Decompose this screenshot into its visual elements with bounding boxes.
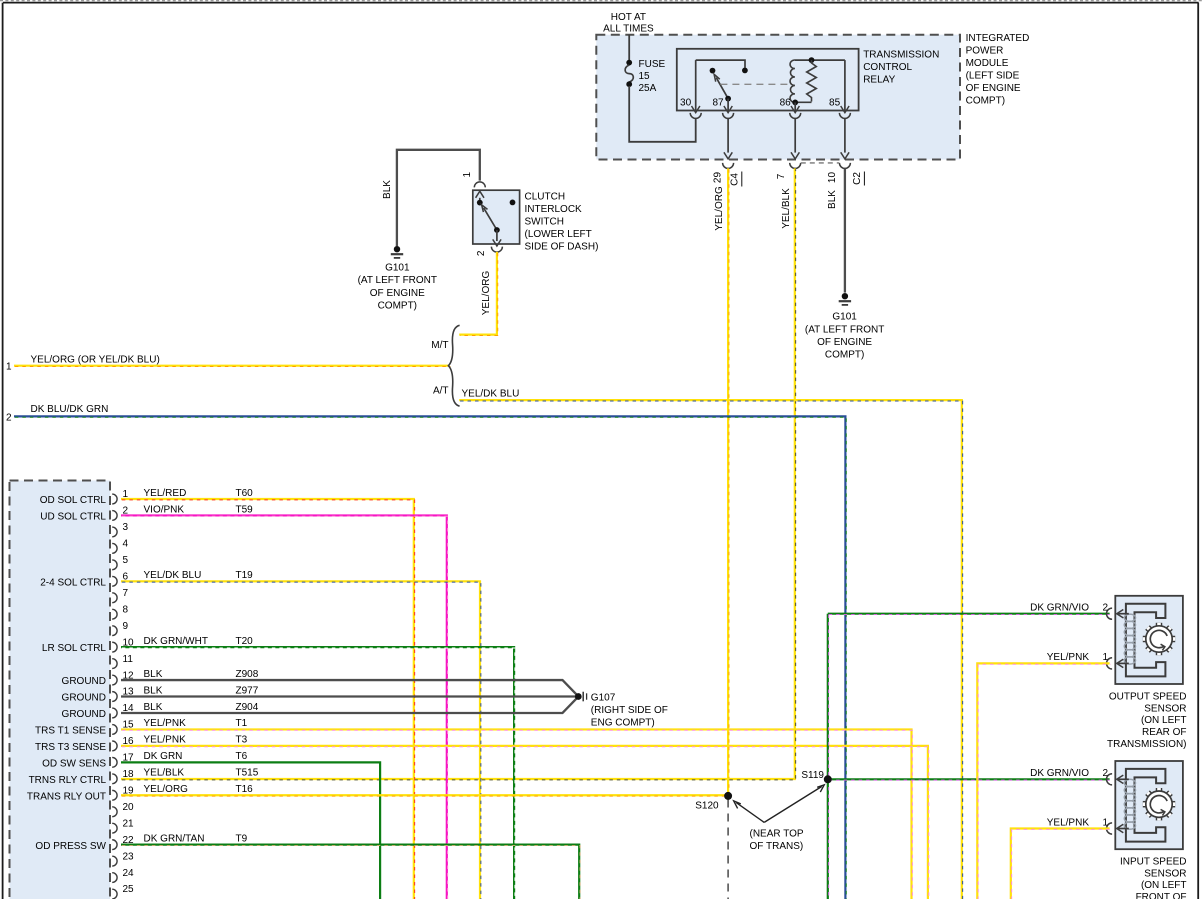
svg-text:S119: S119 [801,770,824,781]
svg-text:FRONT OF: FRONT OF [1136,892,1187,899]
svg-text:8: 8 [123,604,129,615]
svg-text:YEL/PNK: YEL/PNK [1047,652,1090,663]
svg-text:C4: C4 [730,173,741,186]
svg-text:YEL/PNK: YEL/PNK [144,735,187,746]
svg-text:YEL/ORG: YEL/ORG [144,784,189,795]
svg-text:VIO/PNK: VIO/PNK [144,504,185,515]
svg-text:T6: T6 [236,751,248,762]
svg-text:YEL/RED: YEL/RED [144,488,187,499]
svg-text:BLK: BLK [827,190,838,209]
svg-text:25A: 25A [639,83,657,94]
svg-text:OD SW SENS: OD SW SENS [42,758,106,769]
svg-text:FUSE: FUSE [639,59,666,70]
svg-text:5: 5 [123,555,129,566]
svg-text:INTERLOCK: INTERLOCK [525,204,583,215]
svg-text:87: 87 [712,98,724,109]
svg-text:CLUTCH: CLUTCH [525,192,566,203]
svg-text:YEL/PNK: YEL/PNK [144,718,187,729]
svg-text:YEL/BLK: YEL/BLK [781,188,792,229]
svg-text:T515: T515 [236,768,259,779]
svg-text:85: 85 [829,98,841,109]
svg-text:T59: T59 [236,504,254,515]
svg-text:TRS T1 SENSE: TRS T1 SENSE [35,726,106,737]
svg-text:GROUND: GROUND [62,709,106,720]
svg-text:2: 2 [476,250,487,256]
svg-text:HOT AT: HOT AT [611,12,646,23]
svg-text:T16: T16 [236,784,254,795]
svg-text:DK GRN/VIO: DK GRN/VIO [1030,768,1089,779]
svg-text:1: 1 [1102,817,1108,828]
svg-text:(ON LEFT: (ON LEFT [1141,880,1187,891]
svg-text:YEL/DK BLU: YEL/DK BLU [462,388,520,399]
svg-text:OF ENGINE: OF ENGINE [966,83,1021,94]
svg-text:OF ENGINE: OF ENGINE [817,337,872,348]
svg-text:S120: S120 [695,801,719,812]
svg-text:TRNS RLY CTRL: TRNS RLY CTRL [29,775,107,786]
svg-text:LR SOL CTRL: LR SOL CTRL [42,643,107,654]
svg-text:Z908: Z908 [236,669,259,680]
svg-text:25: 25 [123,884,135,895]
svg-text:T60: T60 [236,488,254,499]
svg-text:DK GRN/VIO: DK GRN/VIO [1030,603,1089,614]
svg-text:YEL/ORG: YEL/ORG [481,271,492,316]
svg-text:1: 1 [6,362,12,373]
svg-text:C2: C2 [852,172,863,185]
svg-text:A/T: A/T [433,386,449,397]
svg-text:BLK: BLK [144,669,163,680]
svg-text:23: 23 [123,851,135,862]
svg-text:TRS T3 SENSE: TRS T3 SENSE [35,742,106,753]
svg-text:1: 1 [462,171,473,177]
svg-text:T9: T9 [236,833,248,844]
svg-text:YEL/BLK: YEL/BLK [144,768,185,779]
svg-text:20: 20 [123,802,135,813]
svg-text:10: 10 [827,172,838,184]
svg-text:UD SOL CTRL: UD SOL CTRL [40,512,106,523]
svg-text:GROUND: GROUND [62,693,106,704]
svg-text:2: 2 [6,412,12,423]
svg-text:11: 11 [123,654,134,665]
svg-text:18: 18 [123,769,135,780]
svg-text:TRANSMISSION): TRANSMISSION) [1107,739,1186,750]
svg-text:9: 9 [123,621,129,632]
svg-text:M/T: M/T [431,340,448,351]
svg-text:GROUND: GROUND [62,676,106,687]
svg-text:COMPT): COMPT) [378,300,417,311]
svg-text:G101: G101 [832,312,857,323]
svg-text:(NEAR TOP: (NEAR TOP [750,828,804,839]
svg-text:OF TRANS): OF TRANS) [750,841,804,852]
svg-text:CONTROL: CONTROL [863,62,912,73]
svg-text:SWITCH: SWITCH [525,217,564,228]
svg-text:BLK: BLK [382,180,393,199]
svg-text:2-4 SOL CTRL: 2-4 SOL CTRL [40,577,106,588]
svg-text:7: 7 [123,588,129,599]
svg-text:(RIGHT SIDE OF: (RIGHT SIDE OF [591,705,668,716]
svg-text:(ON LEFT: (ON LEFT [1141,715,1187,726]
svg-text:T19: T19 [236,570,254,581]
svg-text:TRANSMISSION: TRANSMISSION [863,50,939,61]
svg-text:T3: T3 [236,735,248,746]
svg-text:YEL/PNK: YEL/PNK [1047,817,1090,828]
svg-text:15: 15 [639,71,651,82]
svg-text:86: 86 [780,98,792,109]
svg-text:1: 1 [1102,652,1108,663]
svg-text:DK GRN/WHT: DK GRN/WHT [144,636,208,647]
svg-text:DK BLU/DK GRN: DK BLU/DK GRN [31,404,109,415]
svg-text:4: 4 [123,539,129,550]
svg-text:T1: T1 [236,718,248,729]
svg-text:(AT LEFT FRONT: (AT LEFT FRONT [805,324,884,335]
svg-text:OD SOL CTRL: OD SOL CTRL [40,495,107,506]
svg-text:(AT LEFT FRONT: (AT LEFT FRONT [358,275,437,286]
svg-text:BLK: BLK [144,685,163,696]
svg-text:2: 2 [1102,768,1108,779]
svg-text:7: 7 [776,173,787,179]
svg-text:30: 30 [680,98,692,109]
svg-text:DK GRN/TAN: DK GRN/TAN [144,833,205,844]
svg-text:3: 3 [123,522,129,533]
svg-text:24: 24 [123,868,135,879]
svg-text:G101: G101 [385,263,410,274]
svg-text:YEL/ORG (OR YEL/DK BLU): YEL/ORG (OR YEL/DK BLU) [31,355,160,366]
svg-text:MODULE: MODULE [966,58,1009,69]
svg-text:SENSOR: SENSOR [1144,868,1186,879]
svg-text:DK GRN: DK GRN [144,751,183,762]
svg-text:BLK: BLK [144,702,163,713]
svg-text:G107: G107 [591,693,616,704]
svg-text:REAR OF: REAR OF [1142,727,1186,738]
svg-text:OUTPUT SPEED: OUTPUT SPEED [1109,691,1187,702]
svg-text:(LOWER LEFT: (LOWER LEFT [525,229,592,240]
svg-text:INTEGRATED: INTEGRATED [966,33,1030,44]
svg-text:YEL/DK BLU: YEL/DK BLU [144,570,202,581]
svg-text:OF ENGINE: OF ENGINE [370,288,425,299]
svg-text:TRANS RLY OUT: TRANS RLY OUT [27,791,106,802]
svg-text:INPUT SPEED: INPUT SPEED [1120,856,1187,867]
svg-text:SIDE OF DASH): SIDE OF DASH) [525,241,599,252]
svg-text:COMPT): COMPT) [966,96,1005,107]
svg-text:YEL/ORG: YEL/ORG [714,186,725,231]
svg-text:21: 21 [123,818,135,829]
svg-text:COMPT): COMPT) [825,350,864,361]
svg-text:SENSOR: SENSOR [1144,703,1186,714]
svg-text:RELAY: RELAY [863,75,895,86]
svg-text:Z977: Z977 [236,685,259,696]
svg-text:Z904: Z904 [236,702,259,713]
svg-text:(LEFT SIDE: (LEFT SIDE [966,71,1020,82]
svg-text:OD PRESS SW: OD PRESS SW [35,841,106,852]
svg-text:ALL TIMES: ALL TIMES [603,24,654,35]
svg-text:ENG COMPT): ENG COMPT) [591,718,655,729]
svg-text:29: 29 [713,172,724,184]
svg-text:POWER: POWER [966,46,1004,57]
svg-text:T20: T20 [236,636,254,647]
svg-text:2: 2 [1102,603,1108,614]
